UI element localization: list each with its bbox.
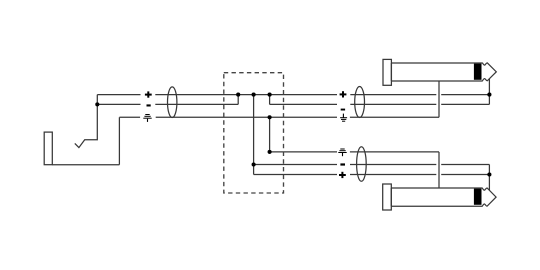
jack plug P1 barrel <box>391 63 482 81</box>
wire lower plus segment c <box>441 174 489 176</box>
junction dot splitter branch <box>252 93 256 97</box>
jack plug P1 tip <box>482 63 496 81</box>
wire lower plus segment a <box>254 174 337 176</box>
label - bottom right <box>340 163 345 165</box>
wire + right segment c <box>350 94 436 96</box>
wire ground drop to lower branch <box>269 117 271 152</box>
wire J1 sleeve riser <box>118 117 120 164</box>
wire top minus segment b <box>350 103 436 105</box>
jack plug P2 rear cap <box>383 184 392 210</box>
wire + left segment b <box>155 94 337 96</box>
jack plug P1 insulator ring <box>474 64 482 80</box>
label + left <box>145 91 152 97</box>
junction dot bottom tip join <box>487 172 491 176</box>
ground symbol top right <box>340 114 347 122</box>
junction dot J1 minus tap <box>95 102 99 106</box>
wire top plug sleeve drop <box>438 81 440 117</box>
wire top minus tap vertical <box>269 95 271 105</box>
wire - left segment a <box>97 103 140 105</box>
cable sheath ellipse bottom right <box>357 147 367 182</box>
wire lower minus segment a <box>254 164 337 166</box>
wire J1 sleeve bottom <box>52 164 119 166</box>
label + top right <box>340 91 347 97</box>
junction dot lower minus tap <box>252 162 256 166</box>
wire lower minus segment c <box>441 164 489 166</box>
wire + right segment d <box>441 94 489 96</box>
cable sheath ellipse top right <box>355 87 365 118</box>
label - left <box>147 104 151 106</box>
ground symbol left <box>143 114 151 122</box>
junction dot ground tap <box>268 115 272 119</box>
junction dot top tip join <box>487 93 491 97</box>
cable sheath ellipse left <box>168 87 177 118</box>
wire - left segment b <box>155 103 238 105</box>
junction dot minus join <box>236 93 240 97</box>
wire ground left segment b <box>156 116 337 118</box>
wire lower plus segment b <box>350 174 436 176</box>
label - top right <box>341 109 345 111</box>
wire top minus segment c <box>441 103 489 105</box>
wire lower ground segment b <box>350 151 439 153</box>
wire lower ground segment a <box>270 151 337 153</box>
wire ground left segment a <box>119 116 140 118</box>
jack plug P2 tip <box>482 188 496 206</box>
wire bottom tip vertical <box>488 165 490 191</box>
wire - join riser to + <box>237 95 239 105</box>
jack plug P2 barrel <box>391 188 482 206</box>
splitter junction dashed box <box>224 73 284 193</box>
junction dot lower ground corner <box>268 150 272 154</box>
junction dot top minus tap <box>268 93 272 97</box>
jack plug P1 rear cap <box>383 59 391 85</box>
wire ground right segment c <box>350 116 439 118</box>
wire splitter branch vertical <box>253 95 255 175</box>
wire top minus segment a <box>270 103 337 105</box>
J1 tip contact hook <box>75 95 98 148</box>
ground symbol bottom right <box>338 149 346 157</box>
wire bottom plug sleeve drop <box>438 152 440 188</box>
wire lower minus segment b <box>350 164 436 166</box>
wire + left segment a <box>97 94 140 96</box>
wire top tip vertical <box>488 79 490 105</box>
angled mini-jack plug J1 sleeve body <box>44 132 52 165</box>
label + bottom right <box>339 172 346 178</box>
jack plug P2 insulator ring <box>474 189 482 205</box>
